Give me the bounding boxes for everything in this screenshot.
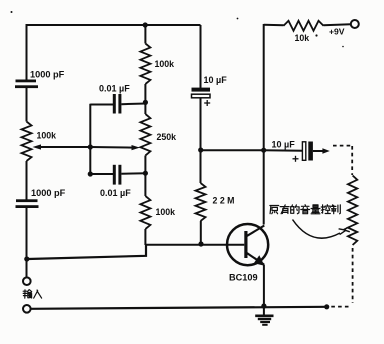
node D junction <box>198 147 203 152</box>
capacitor C5 10uF <box>192 75 228 106</box>
node A lower junction <box>88 171 93 176</box>
wiper arrow R7 <box>344 227 350 232</box>
wire dashed volume pot bottom <box>331 248 353 307</box>
label +9V <box>329 27 345 37</box>
ground <box>255 306 273 325</box>
capacitor C3 0.01uF <box>99 84 130 114</box>
wire node A vertical <box>89 104 91 175</box>
wire node A to C3 <box>90 104 113 106</box>
wire R5 to base junction <box>200 221 202 245</box>
wire node A to C4 <box>90 173 113 175</box>
svg-text:+9V: +9V <box>329 27 345 37</box>
label input 输入 <box>23 290 41 298</box>
svg-text:100k: 100k <box>37 131 57 141</box>
wire C4 to node C <box>121 172 146 175</box>
wire wiper R1 to node A <box>40 146 91 148</box>
wire dashed to volume pot top <box>333 146 352 175</box>
speck <box>11 11 13 13</box>
wire C3 to node B <box>121 103 146 106</box>
svg-text:250k: 250k <box>157 132 177 142</box>
node emitter-ground junction <box>261 303 266 308</box>
wiper arrow R1 <box>33 144 42 149</box>
wire C1 to pot <box>26 88 28 122</box>
potentiometer R7 volume <box>348 176 357 246</box>
wiper arrow R3 <box>132 145 140 150</box>
wire top node to R2 <box>144 25 146 44</box>
wire supply top horizontal <box>264 24 284 27</box>
svg-text:100k: 100k <box>156 207 176 217</box>
wire node A to R3 wiper <box>90 146 134 149</box>
wire emitter to ground rail <box>263 265 265 307</box>
terminal +9V <box>351 20 359 28</box>
node junction top <box>143 22 148 27</box>
resistor R3 250k <box>140 114 176 156</box>
wire node D to R5 <box>200 150 202 183</box>
wire input junction to base line <box>28 245 146 260</box>
speck <box>342 46 344 48</box>
capacitor C1 1000pF <box>15 70 65 89</box>
potentiometer R1 100k <box>22 122 57 162</box>
wire R4 to base line <box>144 229 146 245</box>
terminal input upper <box>23 277 31 285</box>
speck <box>237 18 239 20</box>
capacitor C4 0.01uF <box>100 165 131 198</box>
capacitor C6 10uF <box>272 140 313 162</box>
wire node E to C6 <box>264 149 303 152</box>
wire bottom ground rail <box>31 307 327 309</box>
svg-text:100k: 100k <box>155 59 175 69</box>
wire R3 to node C <box>144 156 146 174</box>
wire C6 output arrow <box>313 148 330 154</box>
svg-text:0.01 µF: 0.01 µF <box>100 188 131 198</box>
wire base line <box>145 244 227 246</box>
svg-text:10k: 10k <box>295 33 310 43</box>
wire node B to R3 <box>144 104 146 114</box>
svg-text:BC109: BC109 <box>229 273 258 283</box>
wire R6 to battery terminal <box>324 24 351 25</box>
label annotation 原有的音量控制 <box>270 205 340 214</box>
resistor R6 10k <box>284 21 324 43</box>
wire node D to node E <box>201 149 265 151</box>
wire R2 to node B <box>144 84 146 104</box>
wire node C to R4 <box>144 174 146 196</box>
svg-text:10 µF: 10 µF <box>272 140 296 150</box>
node C junction <box>143 171 148 176</box>
transistor Q1 BC109 <box>227 224 268 283</box>
node input junction <box>24 256 29 261</box>
wire top to C5 <box>200 25 202 88</box>
wire top-left vertical <box>26 24 28 80</box>
resistor R2 100k <box>140 44 174 85</box>
node B junction <box>143 100 148 105</box>
resistor R5 2.2M <box>196 183 235 221</box>
wire C2 to input terminal <box>26 208 28 278</box>
svg-text:1000 pF: 1000 pF <box>30 70 65 80</box>
wire pot to C2 <box>26 161 28 200</box>
svg-text:10 µF: 10 µF <box>204 75 228 85</box>
wire top horizontal <box>26 24 201 26</box>
terminal input lower <box>23 305 31 313</box>
capacitor C2 1000pF <box>16 188 66 208</box>
wire supply vertical <box>263 24 265 225</box>
node base junction <box>198 241 203 246</box>
node E junction <box>261 148 266 153</box>
svg-text:0.01 µF: 0.01 µF <box>99 84 130 94</box>
resistor R4 100k <box>140 196 175 229</box>
svg-text:1000 pF: 1000 pF <box>31 188 66 198</box>
node A upper junction <box>88 144 93 149</box>
wire C5 to node D <box>200 98 202 151</box>
node output junction <box>324 304 329 309</box>
svg-text:2 2 M: 2 2 M <box>213 196 235 206</box>
annotation arrow <box>293 220 347 239</box>
